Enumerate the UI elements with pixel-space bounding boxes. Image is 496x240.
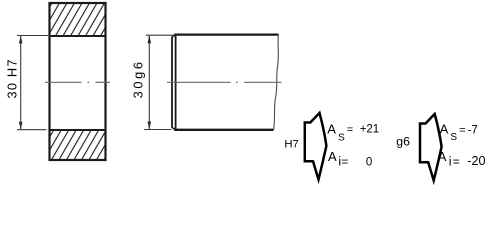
shaft chamfer diagonal top xyxy=(172,34,176,37)
svg-text:g6: g6 xyxy=(396,135,410,149)
shaft dimension arrow down xyxy=(148,122,152,130)
svg-text:i: i xyxy=(449,155,452,169)
shaft centerline xyxy=(167,81,282,83)
svg-text:A: A xyxy=(328,149,337,164)
svg-text:0: 0 xyxy=(366,156,372,168)
shaft break wavy line xyxy=(274,34,279,130)
tolerance symbol H7 xyxy=(305,113,327,180)
shaft chamfer diagonal bottom xyxy=(172,127,176,130)
svg-text:+21: +21 xyxy=(360,123,380,135)
shaft dimension extension line bottom xyxy=(144,129,171,131)
svg-text:=: = xyxy=(453,155,460,169)
shaft end face xyxy=(171,37,173,128)
bushing dimension arrow down xyxy=(19,122,23,130)
shaft dimension line xyxy=(148,36,150,130)
shaft bottom edge xyxy=(175,129,274,131)
svg-text:30g6: 30g6 xyxy=(131,59,146,98)
svg-text:S: S xyxy=(450,132,457,143)
bushing dimension arrow up xyxy=(19,36,23,44)
bushing dimension extension line bottom xyxy=(17,129,47,131)
svg-text:-7: -7 xyxy=(468,125,478,137)
svg-text:A: A xyxy=(438,149,447,164)
hatch top band (bushing section) xyxy=(51,4,106,35)
shaft dimension extension line top xyxy=(146,34,173,36)
bore top edge xyxy=(49,35,107,37)
svg-text:-20: -20 xyxy=(467,154,485,168)
shaft dimension arrow up xyxy=(148,35,152,43)
svg-text:A: A xyxy=(327,121,336,136)
shaft top edge xyxy=(175,33,279,35)
tolerance symbol g6 xyxy=(420,114,442,181)
bushing outer rectangle xyxy=(50,3,106,160)
svg-text:A: A xyxy=(440,122,449,137)
shaft chamfer edge line xyxy=(175,34,177,131)
svg-text:=: = xyxy=(459,125,465,137)
svg-text:=: = xyxy=(347,124,353,136)
svg-text:=: = xyxy=(341,154,348,168)
svg-text:30 H7: 30 H7 xyxy=(4,58,19,98)
bushing centerline xyxy=(45,81,110,83)
svg-text:H7: H7 xyxy=(284,138,298,150)
bore bottom edge xyxy=(49,129,107,131)
bushing dimension line xyxy=(20,36,22,129)
bushing dimension extension line top xyxy=(17,35,51,37)
svg-text:S: S xyxy=(338,133,345,144)
hatch bottom band (bushing section) xyxy=(51,131,106,160)
